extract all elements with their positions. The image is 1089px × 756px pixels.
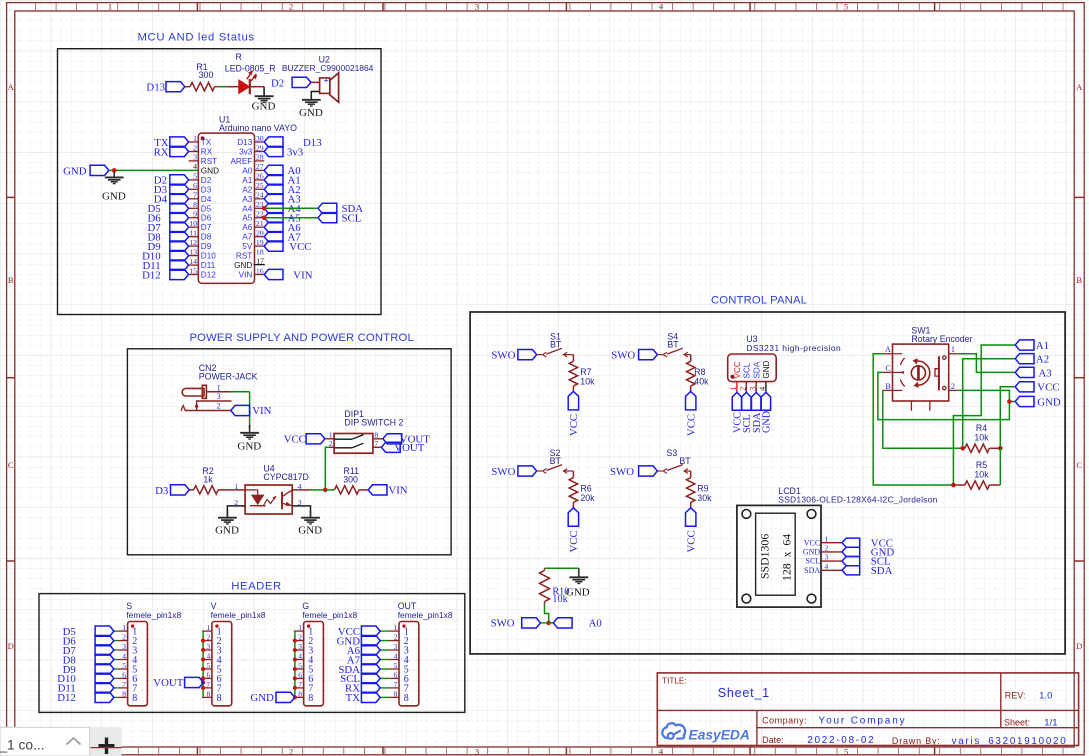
svg-text:A2: A2	[242, 185, 252, 194]
svg-text:D5: D5	[201, 204, 212, 213]
svg-text:GND: GND	[1037, 396, 1061, 408]
svg-text:D7: D7	[201, 223, 212, 232]
section box POWER SUPPLY	[127, 349, 451, 555]
svg-text:3: 3	[217, 392, 221, 401]
CN2 pin1 wire to gnd	[206, 391, 230, 393]
svg-text:2: 2	[122, 633, 126, 642]
port VCC below R8	[686, 391, 696, 410]
svg-text:MCU AND led Status: MCU AND led Status	[138, 32, 255, 44]
port SDA	[318, 203, 337, 213]
svg-text:7: 7	[298, 680, 302, 689]
port GND at OUT header	[380, 640, 389, 642]
svg-text:4: 4	[659, 2, 664, 12]
svg-text:3: 3	[394, 642, 398, 651]
svg-text:SDA: SDA	[871, 565, 893, 577]
resistor R1	[185, 86, 190, 88]
svg-text:femele_pin1x8: femele_pin1x8	[211, 610, 266, 620]
svg-text:1/1: 1/1	[1044, 718, 1057, 729]
svg-text:GND: GND	[102, 191, 126, 203]
svg-text:2: 2	[289, 747, 293, 756]
svg-text:3v3: 3v3	[239, 148, 253, 157]
svg-text:300: 300	[199, 70, 214, 80]
svg-text:4: 4	[825, 562, 829, 571]
svg-text:4: 4	[394, 652, 398, 661]
svg-text:A6: A6	[242, 223, 252, 232]
svg-text:D12: D12	[57, 692, 76, 704]
svg-text:GND: GND	[762, 411, 773, 433]
svg-text:REV:: REV:	[1005, 690, 1026, 700]
svg-text:SCL: SCL	[342, 213, 362, 225]
svg-text:5V: 5V	[242, 242, 253, 251]
title block frame	[657, 673, 1078, 746]
svg-text:RST: RST	[201, 157, 217, 166]
svg-text:GND: GND	[803, 548, 821, 557]
svg-text:6: 6	[207, 670, 211, 679]
svg-text:D13: D13	[303, 137, 322, 149]
svg-text:Company:: Company:	[762, 716, 807, 726]
svg-text:GND: GND	[250, 692, 274, 704]
svg-text:GND: GND	[237, 441, 261, 453]
svg-text:RST: RST	[236, 252, 252, 261]
svg-text:6: 6	[394, 670, 398, 679]
port VCC at LCD1	[842, 538, 860, 547]
svg-text:+: +	[323, 75, 328, 85]
svg-text:1.0: 1.0	[1039, 690, 1052, 701]
SW1 pushbutton	[938, 356, 940, 390]
svg-text:A3: A3	[242, 195, 252, 204]
port VCC at OUT header	[380, 630, 389, 632]
svg-text:5: 5	[844, 2, 848, 12]
wire A pin to R5	[873, 354, 953, 485]
svg-text:A: A	[8, 82, 15, 92]
svg-text:TX: TX	[346, 692, 361, 704]
svg-text:VOUT: VOUT	[394, 442, 424, 454]
svg-text:D: D	[8, 641, 14, 651]
svg-text:D12: D12	[201, 271, 216, 280]
svg-text:30k: 30k	[697, 493, 712, 503]
svg-text:VIN: VIN	[388, 485, 407, 497]
svg-text:2: 2	[394, 633, 398, 642]
svg-text:C: C	[1076, 460, 1082, 470]
ground CN2	[249, 425, 251, 433]
U4 pin4 wire	[292, 489, 310, 491]
svg-text:POWER-JACK: POWER-JACK	[199, 372, 258, 382]
port SCL	[318, 213, 337, 223]
svg-text:3: 3	[207, 642, 211, 651]
svg-text:4: 4	[758, 387, 767, 391]
svg-text:BT: BT	[667, 339, 679, 349]
svg-text:D: D	[1076, 641, 1082, 651]
svg-text:VCC: VCC	[685, 530, 697, 552]
resistor R10	[545, 567, 579, 569]
section box MCU AND led Status	[58, 49, 382, 315]
svg-text:GND: GND	[215, 524, 239, 536]
port SDA at LCD1	[842, 566, 860, 575]
svg-text:RX: RX	[154, 146, 169, 158]
port D12	[114, 696, 118, 698]
svg-text:8: 8	[207, 689, 211, 698]
port VCC below R6	[568, 508, 578, 527]
svg-text:1: 1	[329, 430, 333, 439]
svg-text:CONTROL PANAL: CONTROL PANAL	[711, 294, 807, 306]
svg-text:VCC: VCC	[685, 414, 697, 436]
SW1 right pins	[949, 353, 959, 355]
svg-text:t_1 co...: t_1 co...	[0, 738, 45, 753]
svg-text:5: 5	[207, 661, 211, 670]
wire LED to gnd	[251, 86, 264, 88]
svg-text:VOUT: VOUT	[153, 677, 183, 689]
svg-text:Arduino nano VAYO: Arduino nano VAYO	[219, 123, 297, 133]
svg-text:3: 3	[298, 642, 302, 651]
svg-text:D12: D12	[142, 269, 161, 281]
svg-text:3: 3	[122, 642, 126, 651]
port SDA at OUT header	[380, 668, 389, 670]
svg-text:A0: A0	[242, 166, 252, 175]
svg-text:10k: 10k	[580, 377, 595, 387]
LCD1 pins	[821, 542, 842, 544]
svg-text:3: 3	[748, 387, 757, 391]
wire VCC flag to R4	[1000, 387, 1015, 449]
svg-text:3v3: 3v3	[287, 146, 303, 158]
svg-text:BT: BT	[550, 456, 562, 466]
port D11	[114, 687, 118, 689]
svg-text:10k: 10k	[974, 432, 989, 442]
svg-text:D10: D10	[201, 252, 216, 261]
svg-text:1: 1	[951, 345, 955, 354]
port A7 at OUT header	[380, 659, 389, 661]
svg-text:VIN: VIN	[252, 405, 271, 417]
svg-text:8: 8	[298, 689, 302, 698]
svg-text:SDA: SDA	[804, 566, 820, 575]
svg-text:RX: RX	[201, 148, 213, 157]
svg-text:DIP SWITCH 2: DIP SWITCH 2	[344, 418, 403, 428]
svg-text:A: A	[885, 345, 891, 354]
port VOUT pin7	[373, 446, 382, 448]
svg-text:3: 3	[475, 747, 479, 756]
svg-text:2022-08-02: 2022-08-02	[807, 735, 875, 746]
svg-text:HEADER: HEADER	[231, 581, 281, 593]
port D13	[166, 82, 185, 92]
G bus wire	[294, 631, 296, 697]
port D6	[114, 640, 118, 642]
svg-text:1: 1	[108, 2, 112, 12]
U3 pins	[736, 382, 738, 393]
svg-text:SWO: SWO	[610, 466, 634, 478]
svg-text:SDA: SDA	[752, 361, 761, 378]
svg-text:D3: D3	[201, 185, 212, 194]
U4 pin2 to gnd	[227, 506, 245, 516]
svg-text:VCC: VCC	[733, 361, 742, 378]
svg-text:varis_63201910020: varis_63201910020	[952, 736, 1068, 747]
svg-text:10k: 10k	[974, 469, 989, 479]
svg-text:2: 2	[217, 402, 221, 411]
V bus wire	[202, 631, 204, 697]
svg-text:Rotary Encoder: Rotary Encoder	[911, 334, 972, 344]
svg-text:AREF: AREF	[230, 157, 252, 166]
svg-text:7: 7	[122, 680, 126, 689]
port VCC below R7	[568, 391, 578, 410]
ground at R10	[578, 568, 580, 577]
svg-text:8: 8	[308, 693, 313, 704]
ports VCC SCL SDA GND under U3	[732, 392, 741, 410]
svg-text:BT: BT	[550, 339, 562, 349]
resistor R8	[690, 355, 692, 362]
svg-text:DS3231 high-precision: DS3231 high-precision	[746, 343, 841, 353]
svg-text:5: 5	[122, 661, 126, 670]
svg-text:A4: A4	[242, 204, 252, 213]
svg-text:GND: GND	[299, 107, 323, 119]
svg-text:D4: D4	[201, 195, 212, 204]
svg-text:4: 4	[659, 747, 664, 756]
svg-text:D8: D8	[201, 233, 212, 242]
svg-text:SWO: SWO	[491, 466, 515, 478]
port VOUT pin8	[373, 438, 383, 440]
svg-text:6: 6	[122, 670, 126, 679]
svg-text:128 x 64: 128 x 64	[780, 534, 794, 581]
svg-text:VCC: VCC	[284, 434, 306, 446]
svg-text:A2: A2	[1036, 354, 1049, 366]
CN2 pin2	[185, 410, 231, 412]
SW1 left pins	[883, 353, 893, 355]
svg-text:B: B	[1076, 275, 1082, 285]
svg-text:C: C	[885, 364, 891, 373]
port GND at LCD1	[842, 547, 860, 556]
wire buzzer to gnd	[311, 92, 319, 100]
svg-text:C: C	[8, 460, 14, 470]
resistor R9	[690, 471, 692, 478]
svg-text:20k: 20k	[580, 493, 595, 503]
svg-text:SCL: SCL	[743, 362, 752, 378]
port A6 at OUT header	[380, 649, 389, 651]
svg-text:8: 8	[394, 689, 398, 698]
svg-text:VCC: VCC	[289, 241, 311, 253]
svg-text:VIN: VIN	[239, 271, 253, 280]
svg-text:R: R	[236, 52, 242, 62]
svg-text:2: 2	[951, 382, 955, 391]
svg-text:Your Company: Your Company	[819, 716, 907, 727]
svg-text:8: 8	[374, 430, 378, 439]
port D8	[114, 659, 118, 661]
sheet tab bar	[0, 727, 121, 756]
svg-text:2: 2	[825, 544, 829, 553]
svg-text:POWER SUPPLY AND POWER CONTROL: POWER SUPPLY AND POWER CONTROL	[190, 332, 414, 344]
svg-text:2: 2	[739, 387, 748, 391]
svg-text:1: 1	[234, 482, 238, 491]
svg-text:TITLE:: TITLE:	[662, 677, 687, 686]
ground of LED	[263, 90, 265, 97]
svg-text:3: 3	[475, 2, 479, 12]
svg-text:4: 4	[122, 652, 126, 661]
svg-text:femele_pin1x8: femele_pin1x8	[302, 610, 357, 620]
svg-text:5: 5	[844, 747, 848, 756]
svg-text:8: 8	[404, 693, 409, 704]
svg-text:GND: GND	[252, 100, 276, 112]
svg-text:A: A	[1076, 82, 1083, 92]
svg-text:A3: A3	[1039, 367, 1052, 379]
SW1 bottom pins	[910, 401, 912, 411]
svg-text:VIN: VIN	[293, 269, 312, 281]
port SCL at LCD1	[842, 557, 860, 566]
svg-text:40k: 40k	[694, 377, 709, 387]
ports A1 A2 A3 VCC GND	[1015, 340, 1034, 350]
wire pin2 to GND flag	[958, 390, 1015, 401]
svg-text:GND: GND	[298, 524, 322, 536]
EasyEDA logo	[667, 723, 686, 738]
svg-text:4: 4	[207, 652, 211, 661]
port D10	[114, 677, 118, 679]
svg-text:D3: D3	[155, 485, 168, 497]
wire A1 flag	[953, 345, 1015, 485]
svg-text:EasyEDA: EasyEDA	[689, 728, 750, 743]
svg-text:B: B	[885, 382, 891, 391]
svg-text:D2: D2	[201, 176, 212, 185]
svg-text:femele_pin1x8: femele_pin1x8	[398, 610, 453, 620]
ground of buzzer	[310, 93, 312, 100]
svg-text:7: 7	[394, 680, 398, 689]
port RX at OUT header	[380, 687, 389, 689]
svg-text:femele_pin1x8: femele_pin1x8	[126, 610, 181, 620]
CN2 pin3	[197, 401, 232, 411]
resistor R6	[572, 471, 574, 478]
port D9	[114, 668, 118, 670]
svg-text:1: 1	[729, 387, 738, 391]
svg-text:4: 4	[298, 652, 302, 661]
U4 pin3 to gnd	[292, 506, 310, 516]
ground at U1 pin4	[113, 172, 115, 178]
svg-text:A5: A5	[242, 214, 252, 223]
wire pin1 to A3 flag	[958, 354, 1015, 373]
port A0	[549, 622, 554, 624]
svg-text:Sheet_1: Sheet_1	[718, 686, 770, 700]
port D7	[114, 649, 118, 651]
svg-text:VCC: VCC	[568, 530, 580, 552]
LED D2	[239, 80, 250, 94]
svg-text:1k: 1k	[203, 475, 213, 485]
svg-text:SWO: SWO	[491, 349, 515, 361]
svg-text:8: 8	[217, 693, 222, 704]
svg-text:D6: D6	[201, 214, 212, 223]
wire A2 flag to R4	[963, 359, 1016, 449]
svg-text:TX: TX	[201, 138, 212, 147]
section box HEADER	[39, 594, 465, 713]
section box CONTROL PANAL	[470, 312, 1065, 654]
svg-text:SSD1306: SSD1306	[757, 534, 771, 579]
port SCL at OUT header	[380, 677, 389, 679]
svg-text:8: 8	[122, 689, 126, 698]
svg-text:CYPC817D: CYPC817D	[263, 472, 308, 482]
svg-text:SWO: SWO	[491, 618, 515, 630]
svg-text:D2: D2	[271, 78, 284, 90]
port TX at OUT header	[380, 696, 389, 698]
svg-text:Sheet:: Sheet:	[1004, 718, 1030, 728]
svg-text:D13: D13	[146, 82, 165, 94]
wire B pin to R4	[883, 390, 963, 448]
svg-text:VCC: VCC	[568, 414, 580, 436]
svg-text:1: 1	[394, 623, 398, 632]
svg-text:BUZZER_C9900021864: BUZZER_C9900021864	[282, 63, 374, 73]
svg-text:A1: A1	[1036, 340, 1049, 352]
svg-text:GND: GND	[201, 166, 219, 175]
svg-text:SCL: SCL	[806, 557, 821, 566]
svg-text:B: B	[8, 275, 14, 285]
svg-text:17: 17	[256, 256, 264, 265]
svg-text:2: 2	[298, 633, 302, 642]
wires U1 A4 A5 to SDA SCL	[264, 207, 318, 209]
svg-text:1: 1	[298, 623, 302, 632]
svg-text:VCC: VCC	[804, 538, 820, 547]
svg-text:7: 7	[207, 680, 211, 689]
svg-text:VCC: VCC	[1037, 382, 1059, 394]
svg-text:5: 5	[298, 661, 302, 670]
port D5	[114, 630, 118, 632]
svg-text:1: 1	[207, 623, 211, 632]
svg-text:GND: GND	[566, 587, 590, 599]
resistor R7	[572, 355, 574, 362]
svg-text:1: 1	[122, 623, 126, 632]
svg-text:1: 1	[825, 534, 829, 543]
svg-text:8: 8	[132, 693, 137, 704]
svg-text:18: 18	[256, 247, 264, 256]
svg-text:A7: A7	[242, 233, 252, 242]
svg-text:A1: A1	[242, 176, 252, 185]
svg-text:A0: A0	[589, 618, 602, 630]
svg-text:6: 6	[298, 670, 302, 679]
svg-text:GND: GND	[762, 360, 771, 378]
svg-text:2: 2	[289, 2, 293, 12]
svg-text:S3: S3	[667, 448, 678, 458]
DIP1 pin2 wire	[330, 446, 335, 448]
svg-text:GND: GND	[234, 261, 252, 270]
new tab button	[91, 727, 122, 756]
wire D13-LED	[219, 86, 226, 88]
svg-text:SSD1306-OLED-128X64-I2C_Jordel: SSD1306-OLED-128X64-I2C_Jordelson	[778, 495, 937, 505]
svg-text:300: 300	[343, 475, 358, 485]
svg-text:5: 5	[394, 661, 398, 670]
port VCC below R9	[686, 508, 696, 527]
svg-text:BT: BT	[679, 456, 691, 466]
port VIN at CN2	[231, 405, 250, 415]
svg-text:3: 3	[825, 553, 829, 562]
svg-text:GND: GND	[63, 166, 87, 178]
svg-text:D11: D11	[201, 261, 216, 270]
resistor R4	[960, 446, 965, 451]
svg-text:D9: D9	[201, 242, 212, 251]
svg-text:2: 2	[207, 633, 211, 642]
port flag buzzer	[292, 77, 311, 87]
svg-text:D13: D13	[237, 138, 252, 147]
svg-text:Date:: Date:	[762, 735, 784, 745]
wire C pin to GND net	[878, 372, 1010, 419]
svg-text:Drawn By:: Drawn By:	[892, 736, 941, 746]
svg-text:LED-0805_R: LED-0805_R	[225, 64, 276, 74]
svg-text:10k: 10k	[552, 594, 568, 605]
svg-text:SWO: SWO	[611, 349, 635, 361]
resistor R5	[951, 483, 956, 488]
SW1 knob	[911, 366, 925, 380]
port VIN at R11	[368, 485, 387, 495]
